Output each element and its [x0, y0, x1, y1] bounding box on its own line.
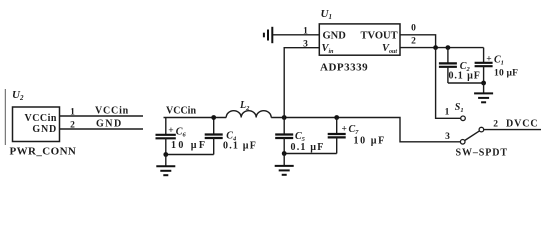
svg-text:0: 0	[411, 24, 416, 34]
svg-text:GND: GND	[96, 119, 123, 130]
svg-text:0.1 µF: 0.1 µF	[223, 141, 257, 152]
wire pin2 Vout	[400, 47, 484, 49]
wire rail right	[271, 118, 460, 142]
capacitor C1 10uF	[483, 48, 485, 63]
capacitor C5 0.1uF	[283, 118, 285, 135]
svg-text:PWR_CONN: PWR_CONN	[10, 146, 77, 158]
wire switch pin1	[436, 48, 461, 119]
junction dot	[163, 152, 168, 157]
svg-text:1: 1	[445, 108, 450, 118]
svg-text:+: +	[168, 126, 173, 136]
svg-text:2: 2	[493, 119, 498, 129]
op-amp U1 box ADP3339	[319, 24, 400, 55]
wire output ground bus	[448, 82, 484, 84]
wire pin1 VCCin	[60, 115, 144, 117]
svg-text:TVOUT: TVOUT	[361, 30, 398, 41]
svg-text:3: 3	[303, 39, 308, 49]
svg-text:SW–SPDT: SW–SPDT	[456, 148, 508, 159]
svg-text:0.1 µF: 0.1 µF	[449, 70, 481, 81]
svg-text:2: 2	[411, 37, 416, 47]
wire ground bus 2	[284, 153, 337, 155]
connector J box PWR_CONN	[13, 107, 60, 142]
junction dot rail/C4	[211, 115, 216, 120]
svg-text:DVCC: DVCC	[506, 118, 539, 129]
svg-text:VCCin: VCCin	[166, 106, 196, 117]
svg-text:10 µF: 10 µF	[494, 69, 518, 79]
svg-text:GND: GND	[32, 124, 57, 135]
wire rail left	[164, 117, 227, 119]
svg-text:VCCin: VCCin	[95, 106, 129, 117]
wire ground bus 1	[166, 154, 214, 156]
capacitor C4 0.1uF	[213, 118, 215, 135]
capacitor C2 0.1uF	[447, 48, 449, 64]
svg-text:GND: GND	[323, 30, 347, 41]
inductor L2	[226, 111, 271, 118]
capacitor C7 10uF	[336, 118, 338, 134]
wire switch pin2 DVCC	[484, 129, 541, 131]
svg-text:ADP3339: ADP3339	[320, 62, 368, 74]
ground (bus 2)	[275, 154, 294, 175]
ground (bus 1)	[156, 155, 175, 176]
svg-text:10 µF: 10 µF	[171, 140, 207, 151]
junction dot rail/Vin	[282, 115, 287, 120]
junction dot	[481, 81, 486, 86]
ground (rotated, U1 pin1)	[264, 27, 272, 43]
junction dot	[282, 151, 287, 156]
svg-text:VCCin: VCCin	[24, 113, 57, 124]
svg-text:+: +	[342, 124, 347, 134]
svg-text:+: +	[486, 55, 491, 65]
page-edge artifact line	[4, 89, 6, 145]
svg-text:10 µF: 10 µF	[354, 136, 386, 147]
junction dot C2 tap	[446, 45, 451, 50]
junction dot pin0/pin2	[433, 45, 438, 50]
wire pin2 GND	[60, 128, 144, 130]
svg-text:1: 1	[303, 27, 308, 37]
wire pin1	[273, 34, 319, 36]
wire pin0 TVOUT	[400, 35, 436, 48]
switch S1 SW-SPDT	[460, 116, 483, 144]
capacitor C6 10uF	[165, 118, 167, 135]
svg-text:3: 3	[445, 132, 450, 142]
junction dot rail/C7	[334, 115, 339, 120]
wire pin3 (down to rail)	[284, 48, 319, 118]
ground (output)	[474, 83, 493, 102]
svg-text:0.1 µF: 0.1 µF	[291, 142, 325, 153]
